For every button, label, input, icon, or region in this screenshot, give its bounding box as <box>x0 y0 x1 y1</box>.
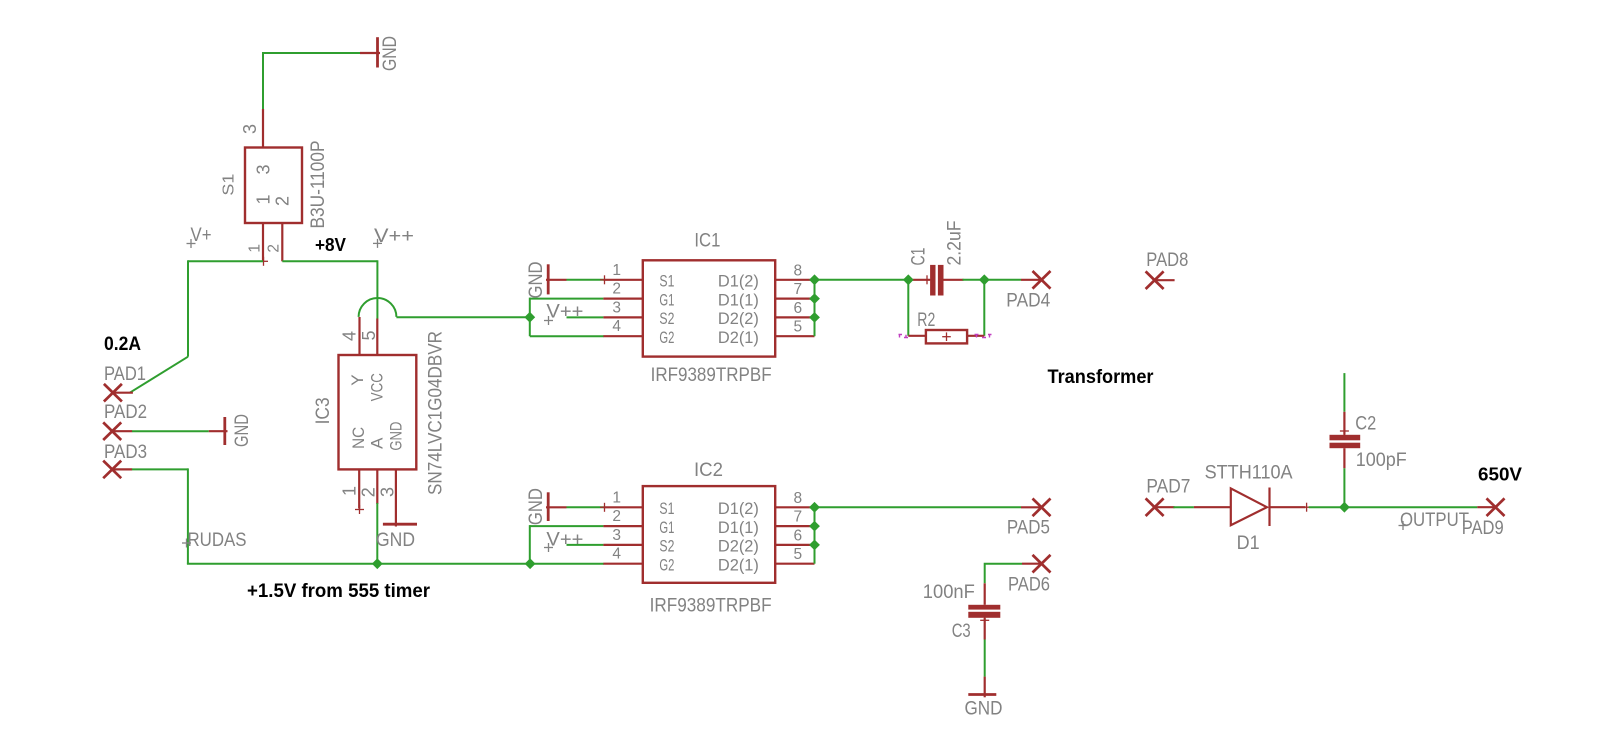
svg-text:D1(2): D1(2) <box>718 272 759 291</box>
svg-text:2: 2 <box>359 487 379 497</box>
svg-text:GND: GND <box>376 530 415 551</box>
svg-text:5: 5 <box>794 546 803 563</box>
svg-text:G2: G2 <box>659 555 674 574</box>
IC3 pin 2 (A) <box>376 469 378 504</box>
wire hop arc from pin4 over pin5 <box>359 298 397 317</box>
svg-text:S1: S1 <box>659 272 674 291</box>
svg-text:IC3: IC3 <box>313 397 334 424</box>
svg-text:IC1: IC1 <box>694 230 720 251</box>
svg-text:GND: GND <box>526 488 547 525</box>
svg-text:1: 1 <box>247 244 264 253</box>
svg-text:S1: S1 <box>659 499 674 518</box>
wire D1 to PAD9 <box>1309 506 1478 508</box>
resistor R2 <box>908 330 984 343</box>
junction rail-IC3 pin2 <box>372 558 383 569</box>
junction IC1 pin7 <box>809 293 820 304</box>
svg-text:1: 1 <box>612 489 621 506</box>
pin joint cross C3 bottom <box>980 616 989 625</box>
svg-text:GND: GND <box>965 699 1003 720</box>
wire GND to IC2 pin1 <box>567 506 604 508</box>
svg-text:D2(1): D2(1) <box>718 555 759 574</box>
wire V++ stub to IC2 pin3 <box>567 544 604 546</box>
svg-text:GND: GND <box>380 36 401 71</box>
label cross OUTPUT <box>1399 521 1408 530</box>
ground GND at PAD2 (rotated) <box>209 414 253 447</box>
pin joint cross C1 left <box>923 275 932 284</box>
svg-text:7: 7 <box>794 281 803 298</box>
ground GND under IC3 <box>376 524 417 551</box>
label cross V++ IC2 <box>544 543 553 552</box>
svg-text:+8V: +8V <box>315 235 346 255</box>
wire R2 left vertical <box>907 280 909 336</box>
svg-text:100pF: 100pF <box>1356 450 1407 471</box>
junction output node <box>1339 502 1350 513</box>
svg-text:D1: D1 <box>1237 533 1260 554</box>
svg-text:6: 6 <box>794 527 803 544</box>
ground GND top (rotated) <box>360 36 401 71</box>
wire IC2 branch vertical <box>529 525 531 564</box>
pad PAD7 <box>1146 477 1191 517</box>
junction C1 right node <box>979 274 990 285</box>
svg-text:D1(1): D1(1) <box>718 518 759 537</box>
svg-text:PAD8: PAD8 <box>1146 250 1188 271</box>
svg-text:5: 5 <box>794 319 803 336</box>
IC1 pin 5 <box>775 335 814 337</box>
IC3 pin 3 (GND) <box>395 469 397 526</box>
junction IC3 output node <box>524 312 535 323</box>
wire V++ net: pin2 horizontal <box>282 260 377 262</box>
wire IC2 output rail vertical <box>814 507 816 563</box>
svg-text:STTH110A: STTH110A <box>1205 463 1293 484</box>
IC1 pin 8 <box>775 279 814 281</box>
svg-text:D2(1): D2(1) <box>718 328 759 347</box>
IC1 pin 2 <box>603 298 642 300</box>
IC2 pin 1 <box>603 506 642 508</box>
svg-text:100nF: 100nF <box>923 582 975 603</box>
svg-text:GND: GND <box>232 414 253 447</box>
ground GND under C3 <box>965 677 1003 720</box>
pad PAD1 <box>104 364 146 402</box>
wire V+ net: left vertical <box>187 260 189 356</box>
pad PAD4 <box>1006 271 1050 312</box>
svg-text:2.2uF: 2.2uF <box>945 221 966 266</box>
svg-text:+1.5V from 555 timer: +1.5V from 555 timer <box>247 581 431 602</box>
svg-text:S1: S1 <box>221 174 238 196</box>
pad PAD3 <box>103 442 147 478</box>
svg-text:7: 7 <box>794 509 803 526</box>
IC2 pin 8 <box>775 506 814 508</box>
svg-text:4: 4 <box>612 546 621 563</box>
svg-text:650V: 650V <box>1478 465 1522 485</box>
switch S1 pin 2 <box>281 223 283 261</box>
wire IC1 output to C1 <box>815 279 909 281</box>
junction IC2 pin8 <box>809 502 820 513</box>
capacitor C1 <box>909 265 963 296</box>
svg-text:PAD5: PAD5 <box>1007 518 1050 539</box>
wire V++ net: vertical to IC3 VCC <box>376 260 378 318</box>
svg-text:GND: GND <box>526 262 547 299</box>
svg-text:3: 3 <box>378 487 398 497</box>
IC2 pin 7 <box>775 525 814 527</box>
pad PAD9 <box>1462 498 1505 539</box>
wire C2 top stub <box>1343 373 1345 412</box>
svg-text:1: 1 <box>254 194 274 204</box>
pad PAD6 <box>1008 555 1051 596</box>
junction IC2 pin7 <box>809 521 820 532</box>
svg-text:S2: S2 <box>659 537 674 556</box>
wire IC1 gate branch vertical <box>529 298 531 337</box>
pin joint cross D1 cathode <box>1302 503 1311 512</box>
svg-text:PAD2: PAD2 <box>104 402 147 423</box>
IC3 pin 1 (NC) <box>358 469 360 508</box>
svg-text:4: 4 <box>612 318 621 335</box>
svg-text:RUDAS: RUDAS <box>188 530 247 551</box>
svg-text:6: 6 <box>794 300 803 317</box>
svg-text:PAD4: PAD4 <box>1006 291 1050 312</box>
pad PAD8 <box>1146 250 1189 289</box>
svg-text:S2: S2 <box>659 309 674 328</box>
svg-text:A: A <box>368 437 387 449</box>
svg-text:2: 2 <box>612 281 621 298</box>
junction IC1 pin6 <box>809 312 820 323</box>
magenta marks R2 right <box>975 335 992 338</box>
IC3 pin 4 (Y) <box>358 317 360 355</box>
svg-text:5: 5 <box>359 330 379 340</box>
ground GND at IC2 pin1 (rotated) <box>526 488 567 525</box>
wire IC1 G1 branch <box>530 298 604 300</box>
transistor IC1 body IRF9389TRPBF <box>643 260 775 356</box>
svg-text:G1: G1 <box>659 518 674 537</box>
wire C2 bottom to output node <box>1343 468 1345 507</box>
pad PAD5 <box>1007 499 1051 539</box>
svg-text:4: 4 <box>340 331 360 341</box>
svg-text:NC: NC <box>349 427 368 449</box>
junction rail-IC2 branch <box>525 558 536 569</box>
switch S1 body B3U-1100P <box>245 148 302 224</box>
pad PAD2 <box>103 402 147 440</box>
wire PAD6 to C3 <box>985 564 1022 584</box>
svg-text:V++: V++ <box>546 302 583 323</box>
svg-text:IRF9389TRPBF: IRF9389TRPBF <box>651 365 772 386</box>
svg-text:C2: C2 <box>1355 414 1376 435</box>
diode D1 STTH110A <box>1194 488 1306 527</box>
svg-text:2: 2 <box>266 244 283 253</box>
IC2 pin 6 <box>775 544 814 546</box>
svg-text:D1(1): D1(1) <box>718 290 759 309</box>
IC2 pin 5 <box>775 563 814 565</box>
wire V+ net: diagonal to PAD1 <box>130 357 188 393</box>
svg-text:C1: C1 <box>909 248 930 266</box>
wire RUDAS net: PAD3 horizontal <box>132 468 188 470</box>
svg-text:8: 8 <box>794 490 803 507</box>
wire C1 right to PAD4 <box>963 279 1022 281</box>
svg-text:3: 3 <box>254 164 274 174</box>
wire IC1 output rail vertical <box>814 280 816 336</box>
svg-text:D2(2): D2(2) <box>718 537 759 556</box>
wire IC2 G1 branch <box>530 525 604 527</box>
svg-text:C3: C3 <box>952 621 971 642</box>
IC2 pin 2 <box>603 525 642 527</box>
switch S1 pin 3 <box>262 109 264 148</box>
svg-text:0.2A: 0.2A <box>104 334 141 355</box>
capacitor C2 <box>1330 412 1361 469</box>
svg-text:8: 8 <box>794 262 803 279</box>
capacitor C3 <box>968 583 1000 639</box>
pin joint cross IC2 pin1 <box>600 503 609 512</box>
label cross V++ IC1 <box>544 316 553 325</box>
svg-text:IRF9389TRPBF: IRF9389TRPBF <box>650 596 772 617</box>
wire GND to IC1 pin1 <box>567 279 604 281</box>
svg-text:3: 3 <box>612 299 621 316</box>
svg-text:VCC: VCC <box>368 373 387 401</box>
wire GND net top horizontal <box>263 52 360 54</box>
svg-text:1: 1 <box>612 262 621 279</box>
svg-text:2: 2 <box>273 196 293 206</box>
svg-text:PAD1: PAD1 <box>104 364 146 385</box>
IC3 pin 5 (VCC) <box>376 319 378 356</box>
wire V+ net: pin1 horizontal <box>188 260 263 262</box>
wire RUDAS net: left vertical <box>187 468 189 563</box>
pin joint cross C2 top <box>1340 427 1349 436</box>
svg-text:Transformer: Transformer <box>1048 367 1155 388</box>
wire PAD7 to D1 <box>1173 506 1194 508</box>
svg-text:2: 2 <box>612 508 621 525</box>
IC1 pin 4 <box>603 335 642 337</box>
wire RUDAS net: bottom rail <box>187 563 604 565</box>
svg-text:D1(2): D1(2) <box>718 499 759 518</box>
IC1 pin 1 <box>603 279 642 281</box>
junction C1 left node <box>903 274 914 285</box>
transistor IC2 body IRF9389TRPBF <box>643 486 775 583</box>
svg-text:1: 1 <box>340 486 360 496</box>
junction IC2 pin6 <box>809 540 820 551</box>
svg-text:PAD9: PAD9 <box>1462 518 1504 539</box>
wire S1 pin3 to GND vertical <box>262 52 264 109</box>
pin joint cross IC1 pin1 <box>600 275 609 284</box>
wire PAD2 to GND <box>132 430 209 432</box>
svg-text:SN74LVC1G04DBVR: SN74LVC1G04DBVR <box>426 331 447 495</box>
wire V++ stub to IC1 pin3 <box>567 316 604 318</box>
svg-text:B3U-1100P: B3U-1100P <box>308 141 329 229</box>
wire C3 to GND <box>984 640 986 677</box>
svg-text:3: 3 <box>240 124 260 134</box>
junction IC1 pin8 <box>809 274 820 285</box>
svg-text:G2: G2 <box>659 328 674 347</box>
wire IC2 output to PAD5 <box>815 506 1022 508</box>
magenta marks R2 left <box>899 335 909 338</box>
svg-text:Y: Y <box>348 374 367 385</box>
switch S1 pin 1 <box>262 223 264 261</box>
svg-text:OUTPUT: OUTPUT <box>1400 510 1469 531</box>
label cross V+ <box>187 239 196 248</box>
IC2 pin 3 <box>603 544 642 546</box>
svg-text:GND: GND <box>387 422 406 451</box>
IC2 pin 4 <box>603 563 642 565</box>
svg-text:PAD3: PAD3 <box>104 442 147 463</box>
IC1 pin 3 <box>603 316 642 318</box>
op-amp IC3 body SN74LVC1G04DBVR <box>339 355 417 469</box>
svg-text:G1: G1 <box>659 290 674 309</box>
svg-text:PAD6: PAD6 <box>1008 575 1050 596</box>
svg-text:PAD7: PAD7 <box>1146 477 1190 498</box>
svg-text:3: 3 <box>612 527 621 544</box>
label cross V++ <box>373 239 382 248</box>
svg-text:D2(2): D2(2) <box>718 309 759 328</box>
svg-text:R2: R2 <box>917 310 935 331</box>
wire R2 right vertical <box>983 280 985 336</box>
wire IC1 G2 branch <box>530 335 604 337</box>
IC1 pin 7 <box>775 298 814 300</box>
pin joint cross IC3 pin1 <box>355 505 364 514</box>
wire IC3 pin2 to rail <box>376 503 378 564</box>
IC1 pin 6 <box>775 316 814 318</box>
wire IC3 Y output to IC1 gates <box>396 316 529 318</box>
pin joint cross S1 pin1 <box>259 257 268 266</box>
ground GND at IC1 pin1 (rotated) <box>526 262 567 299</box>
label cross RUDAS <box>182 539 191 548</box>
svg-text:IC2: IC2 <box>694 460 723 481</box>
